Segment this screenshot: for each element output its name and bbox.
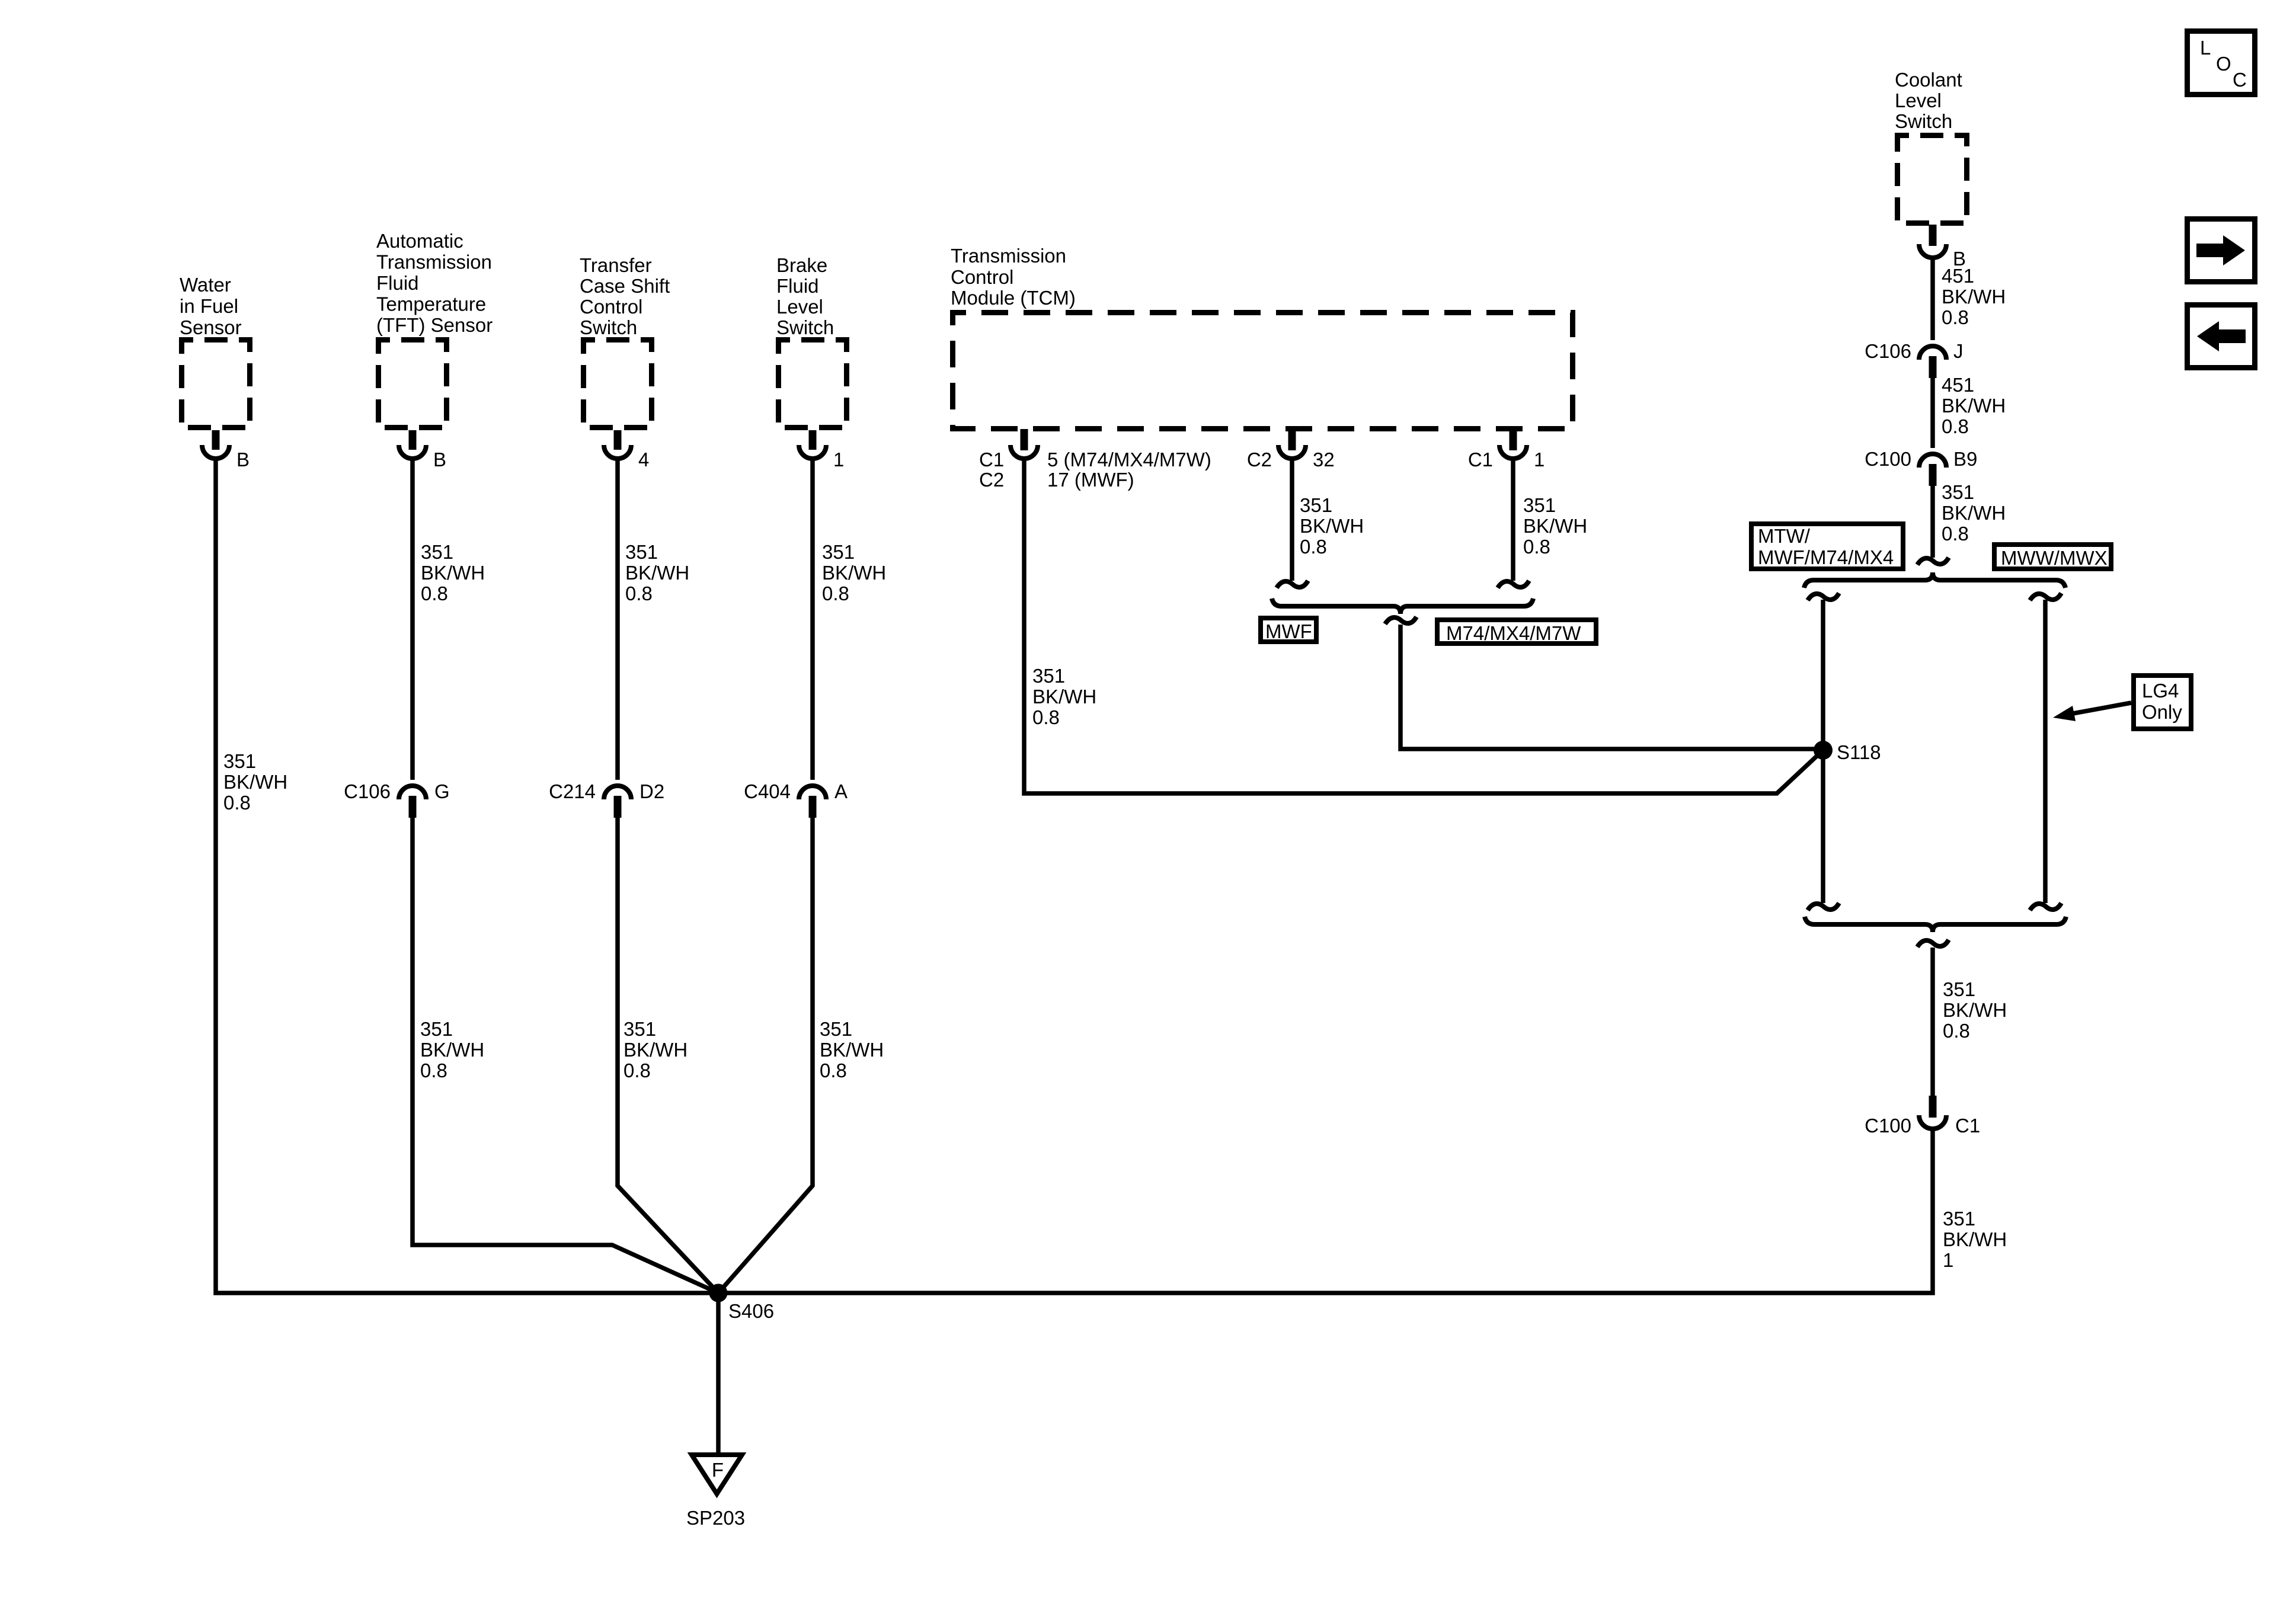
svg-text:351: 351 [1523, 494, 1556, 516]
svg-text:MTW/: MTW/ [1758, 525, 1811, 547]
wire break symbol below option merge brace [1385, 617, 1416, 624]
svg-text:BK/WH: BK/WH [1943, 1228, 2007, 1250]
svg-text:MWF: MWF [1265, 620, 1312, 642]
wire break symbol at bottom of right option branch [2030, 903, 2061, 910]
wire 351 BK/WH 0.8 from option merge to C100 C1 [1933, 948, 2007, 1096]
wire from option merge point to S118 [1400, 625, 1823, 749]
svg-text:BK/WH: BK/WH [1943, 999, 2007, 1021]
svg-text:C1: C1 [1955, 1115, 1980, 1137]
svg-text:MWW/MWX: MWW/MWX [2001, 547, 2108, 569]
svg-text:L: L [2200, 37, 2211, 59]
svg-text:1: 1 [833, 449, 844, 470]
svg-text:B9: B9 [1953, 448, 1977, 470]
svg-text:BK/WH: BK/WH [1032, 686, 1096, 708]
ground symbol SP203 (F) [686, 1455, 745, 1529]
wire 351 BK/WH 0.8 from TCM C1-1 (M74/MX4/M7W option) [1513, 460, 1587, 581]
svg-text:Fluid: Fluid [376, 272, 419, 294]
svg-text:C2: C2 [979, 469, 1004, 491]
svg-text:0.8: 0.8 [1942, 415, 1969, 437]
svg-text:0.8: 0.8 [1942, 306, 1969, 328]
legend box: right arrow [2188, 219, 2255, 282]
in-line connector C404 pin A [744, 780, 848, 818]
svg-text:351: 351 [820, 1018, 852, 1040]
wire break symbol below option merge brace [1917, 940, 1949, 947]
in-line connector C100 pin B9 [1865, 448, 1977, 486]
svg-text:BK/WH: BK/WH [1942, 286, 2006, 308]
svg-text:Coolant: Coolant [1895, 69, 1962, 91]
svg-text:BK/WH: BK/WH [820, 1039, 884, 1061]
svg-text:351: 351 [1032, 665, 1065, 687]
svg-text:351: 351 [1942, 481, 1974, 503]
in-line connector C106 pin J [1865, 340, 1963, 378]
svg-text:0.8: 0.8 [223, 792, 251, 814]
wire 351 BK/WH 0.8 from Water in Fuel Sensor pin B to S406 [216, 460, 718, 1293]
connector pin B of TFT Sensor [399, 430, 446, 470]
option label box MWF [1261, 618, 1316, 642]
wire 351 BK/WH 0.8 from TFT Sensor pin B to connector C106 G [412, 460, 485, 780]
wire 351 BK/WH 0.8 from Transfer Case switch pin 4 to connector C214 D2 [618, 460, 689, 780]
svg-text:C2: C2 [1247, 449, 1272, 470]
svg-text:Case Shift: Case Shift [580, 275, 670, 297]
wire 351 BK/WH 1 from C100 C1 to S406 [718, 1131, 2007, 1293]
svg-text:BK/WH: BK/WH [1523, 515, 1587, 537]
svg-text:351: 351 [625, 541, 658, 563]
svg-text:Module (TCM): Module (TCM) [951, 287, 1076, 309]
svg-text:451: 451 [1942, 265, 1974, 287]
component box: Brake Fluid Level Switch [776, 254, 847, 428]
svg-text:Switch: Switch [580, 316, 637, 338]
svg-text:C100: C100 [1865, 1115, 1911, 1137]
svg-text:17 (MWF): 17 (MWF) [1047, 469, 1134, 491]
svg-text:4: 4 [638, 449, 649, 470]
svg-text:C: C [2233, 69, 2247, 91]
svg-text:Switch: Switch [1895, 110, 1952, 132]
TCM connector pins C1-5 / C2-17 [979, 429, 1211, 491]
svg-text:LG4: LG4 [2142, 680, 2179, 702]
option label box MWW/MWX [1994, 545, 2111, 569]
connector pin B of Water in Fuel Sensor [202, 430, 250, 470]
svg-text:B: B [433, 449, 446, 470]
svg-text:S118: S118 [1837, 741, 1881, 763]
wire break symbol at M74/MX4/M7W option wire end [1498, 581, 1529, 588]
svg-text:Transfer: Transfer [580, 254, 652, 276]
component box: Coolant Level Switch [1895, 69, 1967, 223]
svg-text:Only: Only [2142, 701, 2182, 723]
wire 351 BK/WH 0.8 from TCM C1/C2 ground pin to S118 [1024, 460, 1823, 793]
svg-text:Control: Control [580, 296, 642, 318]
svg-text:0.8: 0.8 [1523, 536, 1550, 558]
svg-text:SP203: SP203 [686, 1507, 745, 1529]
svg-text:BK/WH: BK/WH [1942, 395, 2006, 417]
TCM connector pin C1-1 [1468, 429, 1545, 470]
wire 351 BK/WH 0.8 from Brake Fluid Level Switch pin 1 to connector C404 A [813, 460, 886, 780]
component box: Automatic Transmission Fluid Temperature (TFT) Sensor [376, 230, 493, 428]
svg-text:(TFT) Sensor: (TFT) Sensor [376, 314, 493, 336]
svg-text:Level: Level [1895, 89, 1942, 111]
svg-text:0.8: 0.8 [1032, 706, 1060, 728]
wire 351 BK/WH 0.8 from C214 D2 to S406 [618, 818, 718, 1293]
svg-text:Temperature: Temperature [376, 293, 486, 315]
svg-text:MWF/M74/MX4: MWF/M74/MX4 [1758, 546, 1894, 568]
svg-text:Level: Level [776, 296, 823, 318]
svg-text:0.8: 0.8 [420, 1060, 447, 1081]
wire 451 BK/WH 0.8 from Coolant Level Switch pin B to C106 J [1933, 260, 2006, 340]
connector pin 1 of Brake Fluid Level Switch [799, 430, 844, 470]
svg-text:451: 451 [1942, 374, 1974, 396]
svg-text:C106: C106 [344, 780, 391, 802]
svg-text:C100: C100 [1865, 448, 1911, 470]
svg-text:BK/WH: BK/WH [822, 562, 886, 584]
right option branch wire (MWW/MWX, LG4 only) [2043, 600, 2048, 903]
svg-text:32: 32 [1313, 449, 1335, 470]
svg-text:BK/WH: BK/WH [420, 1039, 484, 1061]
svg-text:0.8: 0.8 [822, 582, 849, 604]
svg-text:0.8: 0.8 [820, 1060, 847, 1081]
svg-text:351: 351 [420, 1018, 453, 1040]
component box: Transmission Control Module (TCM) [951, 245, 1573, 429]
svg-text:351: 351 [1300, 494, 1332, 516]
svg-text:0.8: 0.8 [1943, 1020, 1970, 1042]
svg-text:Sensor: Sensor [180, 316, 242, 338]
wire break symbol at bottom of left option branch [1808, 903, 1839, 910]
svg-text:C106: C106 [1865, 340, 1911, 362]
svg-text:Switch: Switch [776, 316, 834, 338]
wire 451 BK/WH 0.8 from C106 J to C100 B9 [1933, 374, 2006, 448]
splice node S118 [1814, 741, 1881, 763]
component box: Transfer Case Shift Control Switch [580, 254, 670, 428]
svg-text:C1: C1 [1468, 449, 1493, 470]
svg-text:Water: Water [180, 274, 231, 296]
wire from S406 to ground SP203 [716, 1293, 721, 1452]
option label box M74/MX4/M7W [1437, 620, 1596, 644]
svg-text:M74/MX4/M7W: M74/MX4/M7W [1446, 622, 1581, 644]
svg-text:BK/WH: BK/WH [223, 771, 287, 793]
svg-text:0.8: 0.8 [1942, 523, 1969, 545]
TCM connector pin C2-32 [1247, 429, 1335, 470]
connector pin 4 of Transfer Case Shift Control Switch [604, 430, 649, 470]
svg-text:351: 351 [421, 541, 453, 563]
svg-text:351: 351 [1943, 1208, 1975, 1230]
option merge brace under TCM option wires [1272, 598, 1533, 614]
svg-text:351: 351 [223, 750, 256, 772]
svg-text:BK/WH: BK/WH [421, 562, 485, 584]
svg-text:C214: C214 [549, 780, 596, 802]
splice node S406 [709, 1284, 775, 1323]
svg-text:351: 351 [623, 1018, 656, 1040]
svg-text:0.8: 0.8 [1300, 536, 1327, 558]
svg-text:Transmission: Transmission [951, 245, 1066, 267]
svg-text:C1: C1 [979, 449, 1004, 470]
svg-text:BK/WH: BK/WH [623, 1039, 687, 1061]
in-line connector C100 pin C1 [1865, 1096, 1980, 1137]
svg-text:F: F [712, 1459, 724, 1481]
svg-text:BK/WH: BK/WH [1300, 515, 1364, 537]
svg-text:Control: Control [951, 266, 1013, 288]
svg-text:S406: S406 [728, 1300, 774, 1322]
svg-text:J: J [1953, 340, 1964, 362]
option label box MTW/MWF/M74/MX4 [1751, 524, 1903, 569]
option merge brace above common ground wire [1805, 917, 2066, 932]
option split brace below coolant wire [1804, 572, 2065, 588]
svg-text:A: A [834, 780, 848, 802]
svg-text:Automatic: Automatic [376, 230, 463, 252]
wire break symbol at coolant wire option split [1917, 558, 1949, 565]
svg-text:0.8: 0.8 [623, 1060, 651, 1081]
svg-text:O: O [2216, 53, 2231, 75]
svg-text:Transmission: Transmission [376, 251, 492, 273]
svg-text:5 (M74/MX4/M7W): 5 (M74/MX4/M7W) [1047, 449, 1211, 470]
wire break symbol at MWF option wire end [1277, 581, 1308, 588]
svg-text:D2: D2 [639, 780, 664, 802]
svg-text:0.8: 0.8 [421, 582, 448, 604]
svg-text:1: 1 [1534, 449, 1544, 470]
svg-text:G: G [434, 780, 450, 802]
wire break symbol at top of right option branch [2030, 593, 2061, 600]
in-line connector C106 pin G [344, 780, 450, 818]
in-line connector C214 pin D2 [549, 780, 664, 818]
svg-text:B: B [236, 449, 250, 470]
left option branch wire (MTW/MWF/M74/MX4) through S118 [1821, 600, 1825, 903]
svg-text:1: 1 [1943, 1249, 1953, 1271]
svg-text:351: 351 [1943, 978, 1975, 1000]
component box: Water in Fuel Sensor [180, 274, 250, 428]
svg-text:Brake: Brake [776, 254, 827, 276]
svg-text:in Fuel: in Fuel [180, 295, 238, 317]
svg-text:Fluid: Fluid [776, 275, 819, 297]
svg-text:C404: C404 [744, 780, 791, 802]
legend box: left arrow [2188, 305, 2255, 368]
wire break symbol at top of left option branch [1808, 593, 1839, 600]
legend box LOC [2188, 31, 2255, 95]
wire 351 BK/WH 0.8 from TCM C2-32 (MWF option) [1292, 460, 1364, 581]
label box LG4 Only with arrow [2053, 676, 2191, 729]
svg-text:BK/WH: BK/WH [625, 562, 689, 584]
svg-text:351: 351 [822, 541, 855, 563]
svg-text:BK/WH: BK/WH [1942, 502, 2006, 524]
wire 351 BK/WH 0.8 from C100 B9 to option split [1933, 481, 2006, 558]
svg-text:0.8: 0.8 [625, 582, 653, 604]
wire 351 BK/WH 0.8 from C404 A to S406 [718, 818, 884, 1293]
wire 351 BK/WH 0.8 from C106 G to S406 [412, 818, 718, 1293]
connector pin B of Coolant Level Switch [1919, 225, 1966, 270]
